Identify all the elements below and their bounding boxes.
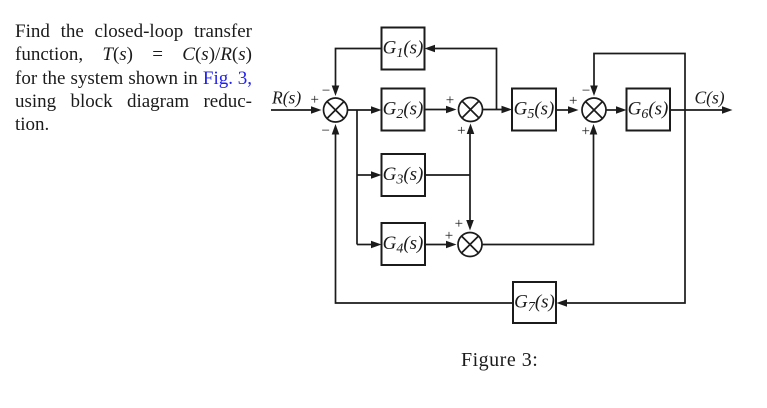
svg-text:G2(s): G2(s) xyxy=(383,99,424,123)
svg-text:−: − xyxy=(582,83,590,99)
svg-text:G5(s): G5(s) xyxy=(514,99,555,123)
svg-text:R(s): R(s) xyxy=(271,88,301,108)
svg-text:Figure 3:: Figure 3: xyxy=(461,349,538,371)
svg-text:−: − xyxy=(322,83,330,99)
svg-text:+: + xyxy=(311,92,319,108)
svg-text:+: + xyxy=(445,228,453,244)
svg-text:+: + xyxy=(455,216,463,232)
svg-text:G1(s): G1(s) xyxy=(383,38,424,62)
svg-text:G7(s): G7(s) xyxy=(514,292,555,316)
svg-text:G3(s): G3(s) xyxy=(383,164,424,188)
svg-text:+: + xyxy=(457,123,465,139)
svg-text:C(s): C(s) xyxy=(695,88,725,108)
svg-text:+: + xyxy=(582,123,590,139)
svg-text:+: + xyxy=(569,93,577,109)
svg-text:−: − xyxy=(322,123,330,139)
svg-text:+: + xyxy=(446,93,454,109)
svg-text:G4(s): G4(s) xyxy=(383,233,424,257)
svg-text:G6(s): G6(s) xyxy=(628,99,669,123)
